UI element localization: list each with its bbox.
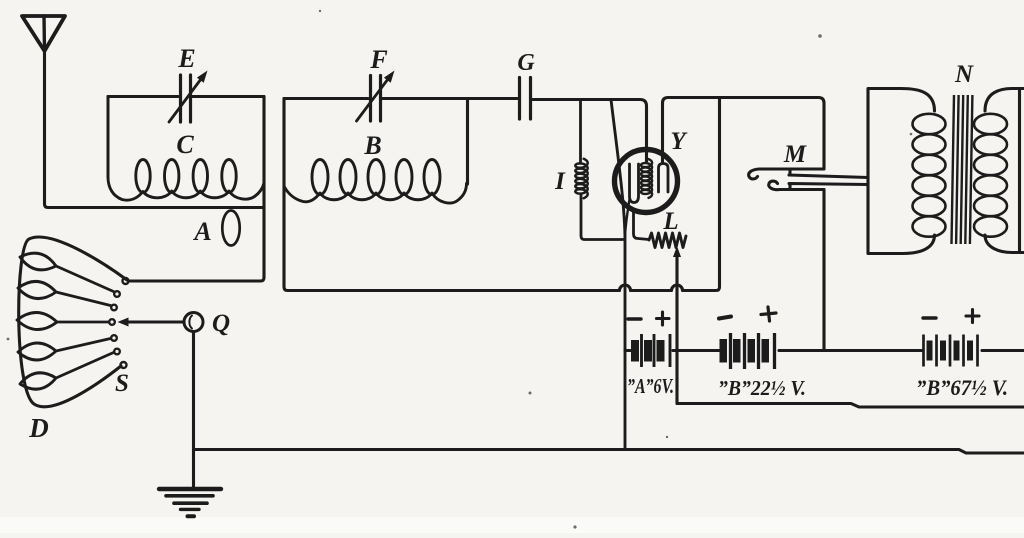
- switch S tap point 5: [111, 335, 117, 341]
- wire top edge of C-E tank: [108, 95, 264, 98]
- battery A minus sign: [628, 317, 641, 320]
- antenna: [22, 16, 65, 51]
- jack M lower contact: [769, 181, 824, 190]
- wire left edge of B-F tank: [282, 99, 285, 191]
- switch pivot Q: [184, 313, 203, 332]
- transformer N secondary outline: [985, 89, 1020, 253]
- variable capacitor E arrow: [169, 79, 201, 122]
- inductor D outer turn: [19, 237, 127, 407]
- wire D tap lead 6: [56, 353, 114, 379]
- battery B1 22.5V cells: [720, 339, 728, 363]
- wire phone tip lead: [789, 170, 868, 178]
- wire battery B2 to edge: [982, 349, 1024, 352]
- inductor D turn 5: [20, 373, 56, 389]
- wire D tap lead 3: [56, 292, 111, 306]
- battery B1 minus sign: [719, 317, 731, 319]
- transformer N primary outline: [868, 89, 935, 254]
- svg-text:E: E: [177, 44, 195, 73]
- wire battery B1 to battery B2: [779, 349, 922, 352]
- svg-text:G: G: [517, 50, 535, 76]
- variable capacitor E plates: [181, 75, 191, 122]
- wire filament battery negative lead: [625, 349, 630, 352]
- transformer N secondary turn 6: [974, 216, 1007, 236]
- transformer N secondary turn 3: [974, 155, 1007, 175]
- inductor D turn 1: [20, 253, 56, 270]
- transformer N primary turn 6: [913, 216, 946, 236]
- wire right edge of C-E tank and coupling box: [129, 97, 265, 282]
- wire ground bus: [194, 450, 1024, 454]
- battery B2 67.5V cells: [927, 341, 933, 361]
- svg-text:”B”22½ V.: ”B”22½ V.: [718, 376, 806, 400]
- inductor I: [575, 159, 587, 198]
- wire coil B right lead: [466, 99, 469, 184]
- svg-text:C: C: [176, 130, 194, 159]
- wire grid leak bottom lead: [581, 195, 623, 240]
- tube grid: [641, 159, 652, 198]
- switch S tap point 7: [121, 362, 127, 368]
- wire grid leak top lead: [579, 100, 582, 163]
- battery A plus sign: [657, 312, 670, 325]
- wire filament lead to rheostat: [634, 211, 650, 240]
- wire bottom edge of B-F tank to grid return: [284, 99, 720, 291]
- transformer N core: [952, 95, 955, 244]
- wire G to grid: [532, 100, 647, 163]
- svg-text:D: D: [28, 413, 49, 443]
- vacuum tube Y envelope: [615, 150, 678, 213]
- wire top edge of B-F tank: [284, 97, 517, 100]
- coupling coil A single turn: [222, 211, 239, 246]
- inductor B: [284, 184, 467, 204]
- wire D tap lead 2: [56, 266, 114, 292]
- transformer N secondary turn 5: [974, 196, 1007, 216]
- inductor C: [108, 177, 264, 200]
- switch S tap point 3: [111, 305, 117, 311]
- transformer N secondary turn 1: [974, 114, 1007, 134]
- inductor D turn 2: [18, 281, 56, 298]
- switch S tap point 1: [123, 278, 129, 284]
- svg-text:N: N: [954, 61, 974, 88]
- switch S tap point 6: [114, 349, 120, 355]
- transformer N primary turn 2: [913, 134, 946, 154]
- jack M upper contact: [749, 169, 824, 179]
- switch S tap point 4: [109, 319, 115, 325]
- wire from Q down to ground: [192, 332, 195, 490]
- battery A 6V cells: [631, 340, 639, 362]
- battery B2 minus sign: [923, 316, 936, 319]
- svg-text:I: I: [554, 168, 566, 195]
- wire phone ring lead: [789, 184, 868, 190]
- transformer N primary turn 1: [913, 114, 946, 134]
- inductor D turn 3: [17, 312, 57, 329]
- transformer N primary turn 4: [913, 175, 946, 195]
- battery B2 plus sign: [966, 310, 979, 323]
- switch S tap point 2: [114, 291, 120, 297]
- wire left edge of C-E tank: [107, 97, 110, 178]
- switch arm Q: [128, 320, 184, 323]
- wire plate supply down: [822, 190, 825, 350]
- svg-text:S: S: [115, 370, 129, 397]
- svg-text:F: F: [369, 45, 387, 74]
- svg-text:M: M: [783, 141, 807, 168]
- variable capacitor F arrow: [357, 79, 389, 121]
- battery B1 plus sign: [761, 307, 776, 321]
- rheostat L wiper arrow: [673, 246, 681, 257]
- rheostat L element: [649, 233, 686, 248]
- wire B-battery plus bus: [677, 404, 1024, 408]
- wire grid return to filament: [611, 100, 625, 450]
- wire plate lead: [663, 98, 825, 169]
- tube plate: [659, 164, 669, 193]
- capacitor G plates: [520, 78, 531, 120]
- wire grid lead inside tube: [645, 162, 647, 163]
- inductor D turn 4: [18, 343, 56, 360]
- wire antenna lead down and right to node A: [45, 51, 265, 208]
- wire D tap lead 5: [56, 339, 111, 352]
- svg-text:”A”6V.: ”A”6V.: [627, 374, 674, 398]
- svg-text:L: L: [662, 208, 678, 235]
- transformer N primary turn 3: [913, 155, 946, 175]
- transformer N primary turn 5: [913, 196, 946, 216]
- svg-text:B: B: [363, 131, 381, 160]
- svg-text:A: A: [192, 217, 211, 246]
- wire battery A to battery B1: [673, 349, 719, 352]
- svg-text:”B”67½ V.: ”B”67½ V.: [916, 375, 1008, 400]
- wire D tap lead 4: [57, 321, 109, 324]
- variable capacitor F plates: [371, 76, 381, 122]
- transformer N secondary turn 4: [974, 175, 1007, 195]
- tube filament: [630, 164, 639, 203]
- ground: [159, 487, 221, 491]
- transformer N secondary turn 2: [974, 134, 1007, 154]
- svg-text:Q: Q: [212, 310, 230, 337]
